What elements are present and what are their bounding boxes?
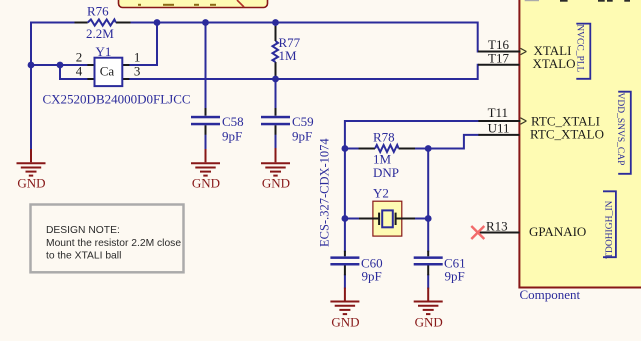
svg-text:GND: GND: [17, 176, 45, 191]
svg-text:VDD_SNVS_CAP: VDD_SNVS_CAP: [615, 93, 625, 166]
svg-text:R76: R76: [87, 4, 109, 19]
svg-text:GND: GND: [415, 314, 443, 329]
svg-text:R78: R78: [373, 129, 395, 144]
svg-text:to the XTALI ball: to the XTALI ball: [46, 251, 121, 262]
svg-text:TDOHIGH_IN: TDOHIGH_IN: [605, 201, 615, 259]
svg-text:GND: GND: [331, 314, 359, 329]
svg-text:9pF: 9pF: [222, 128, 242, 143]
svg-text:Y2: Y2: [373, 186, 389, 201]
svg-text:Component: Component: [520, 287, 581, 302]
svg-text:Y1: Y1: [96, 44, 112, 59]
svg-text:CX2520DB24000D0FLJCC: CX2520DB24000D0FLJCC: [43, 92, 191, 107]
svg-text:9pF: 9pF: [362, 268, 382, 283]
svg-text:T17: T17: [488, 51, 509, 66]
svg-text:ECS-.327-CDX-1074: ECS-.327-CDX-1074: [318, 138, 332, 247]
svg-text:GND: GND: [192, 176, 220, 191]
svg-text:1M: 1M: [279, 48, 298, 63]
svg-text:RTC_XTALO: RTC_XTALO: [530, 127, 604, 142]
svg-text:2: 2: [76, 50, 83, 65]
svg-text:9pF: 9pF: [445, 268, 465, 283]
svg-text:C59: C59: [292, 114, 314, 129]
svg-text:DNP: DNP: [373, 165, 399, 180]
svg-text:4: 4: [76, 64, 83, 79]
svg-text:GPANAIO: GPANAIO: [529, 224, 586, 239]
svg-text:C58: C58: [222, 114, 244, 129]
svg-text:NVCC_PLL: NVCC_PLL: [575, 24, 585, 72]
svg-text:R13: R13: [486, 219, 508, 234]
svg-text:9pF: 9pF: [292, 128, 312, 143]
svg-text:Ca: Ca: [100, 64, 115, 79]
svg-text:DESIGN NOTE:: DESIGN NOTE:: [46, 225, 120, 236]
svg-text:1: 1: [134, 50, 141, 65]
svg-text:XTALO: XTALO: [533, 56, 576, 71]
svg-text:2.2M: 2.2M: [86, 26, 114, 41]
svg-text:Mount the resistor 2.2M close: Mount the resistor 2.2M close: [46, 238, 181, 249]
svg-text:3: 3: [134, 64, 141, 79]
svg-text:T11: T11: [488, 105, 508, 120]
svg-text:U11: U11: [488, 121, 510, 136]
svg-text:GND: GND: [262, 176, 290, 191]
